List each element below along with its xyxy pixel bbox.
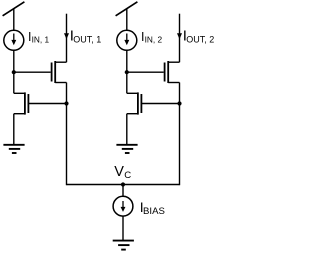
svg-text:IN, 2: IN, 2: [145, 35, 163, 45]
svg-text:OUT, 2: OUT, 2: [186, 34, 214, 44]
svg-text:IN, 1: IN, 1: [32, 35, 50, 45]
svg-text:C: C: [124, 170, 131, 181]
svg-text:BIAS: BIAS: [143, 206, 165, 217]
svg-text:V: V: [114, 164, 124, 180]
svg-text:OUT, 1: OUT, 1: [73, 34, 101, 44]
